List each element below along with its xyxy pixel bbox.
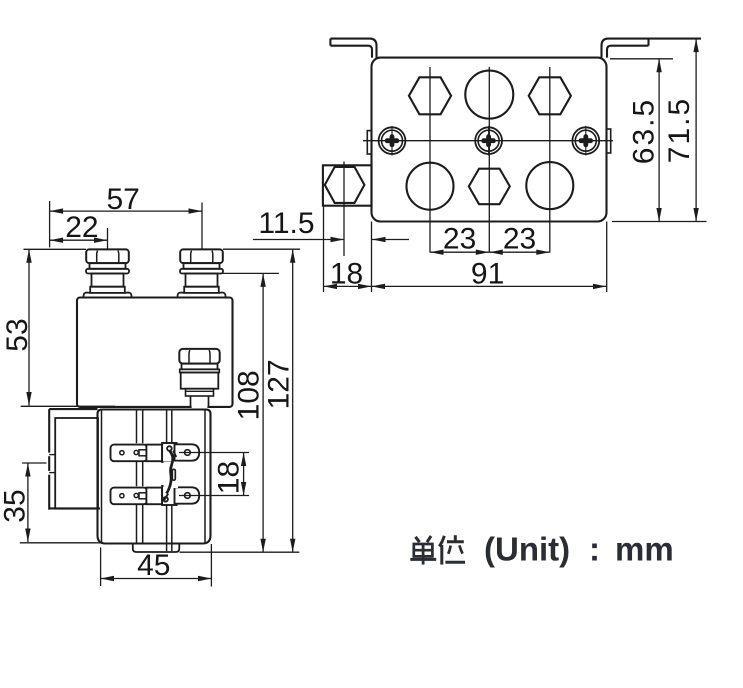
svg-text:91: 91 <box>471 258 504 291</box>
svg-text:71.5: 71.5 <box>663 97 696 163</box>
svg-text:23: 23 <box>443 223 476 256</box>
svg-text:mm: mm <box>615 531 674 568</box>
svg-text:35: 35 <box>0 489 32 522</box>
svg-text:57: 57 <box>107 183 140 216</box>
svg-text:18: 18 <box>212 461 245 494</box>
svg-text:45: 45 <box>137 549 170 582</box>
svg-text:108: 108 <box>232 370 265 420</box>
svg-text:18: 18 <box>330 258 363 291</box>
svg-text:11.5: 11.5 <box>258 207 314 240</box>
svg-text:53: 53 <box>1 318 34 351</box>
svg-text:23: 23 <box>503 223 536 256</box>
svg-text:127: 127 <box>263 359 296 409</box>
svg-text:63.5: 63.5 <box>628 98 661 164</box>
svg-text:22: 22 <box>65 211 98 244</box>
svg-text:(Unit): (Unit) <box>484 531 570 568</box>
svg-text::: : <box>589 531 600 568</box>
